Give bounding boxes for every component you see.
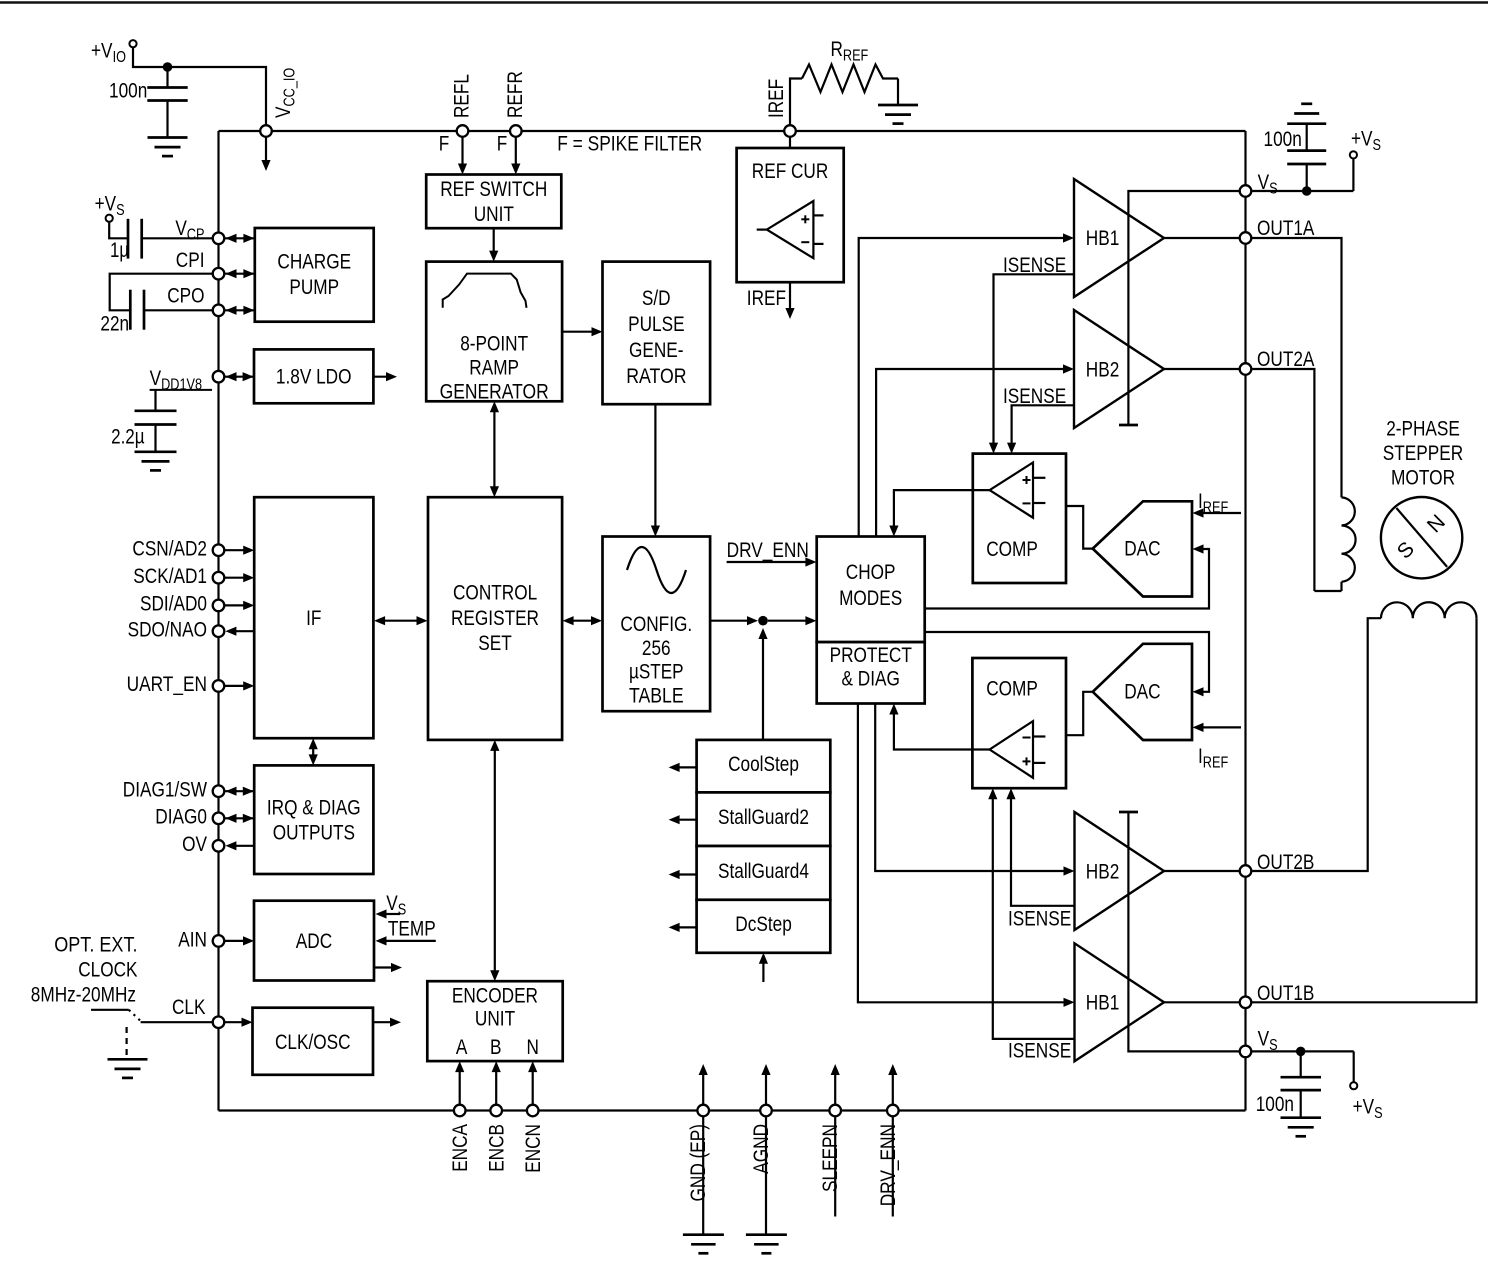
svg-text:AIN: AIN: [178, 928, 207, 951]
svg-text:ISENSE: ISENSE: [1003, 385, 1066, 408]
block CHOP MODES: [817, 537, 925, 643]
svg-text:S: S: [1373, 137, 1382, 154]
pin DIAG1/SW: [213, 785, 225, 797]
pin VS (bottom): [1240, 1046, 1252, 1058]
svg-text:CHOP: CHOP: [846, 561, 896, 584]
block 8-POINT RAMP GENERATOR: [426, 262, 562, 402]
wire IRQ block to OV: [235, 845, 254, 847]
wire COMP upper to DAC upper: [1066, 506, 1093, 549]
capacitor 1u: [109, 222, 128, 239]
wire VS to +VS (top): [1251, 190, 1353, 192]
svg-text:TEMP: TEMP: [388, 918, 436, 941]
svg-text:REF SWITCH: REF SWITCH: [440, 178, 547, 201]
wire REFL to switch unit: [461, 137, 463, 170]
ground (ext clock): [108, 1058, 148, 1061]
svg-text:RATOR: RATOR: [626, 365, 686, 388]
wire HB1 to OUT1A: [1164, 237, 1240, 239]
svg-text:REF: REF: [1203, 500, 1228, 517]
svg-text:SDI/AD0: SDI/AD0: [140, 593, 207, 616]
wire chip left border: [217, 131, 219, 1111]
pin CPO: [213, 305, 225, 317]
svg-text:REF CUR: REF CUR: [752, 160, 829, 183]
pin OV: [213, 840, 225, 852]
wire VDD1V8 to LDO: [224, 376, 254, 378]
svg-text:CPI: CPI: [176, 249, 205, 272]
wire control registers to uStep table: [567, 620, 599, 622]
svg-text:N: N: [527, 1036, 539, 1059]
pin REFR: [510, 125, 522, 137]
pin DRV_ENN: [887, 1105, 899, 1117]
wire VS to +VS (bottom): [1251, 1050, 1353, 1052]
wire chip right border: [1244, 131, 1246, 1111]
svg-text:HB1: HB1: [1086, 992, 1120, 1015]
block CoolStep: [697, 740, 831, 793]
block COMP (lower): [972, 658, 1066, 788]
svg-text:REF: REF: [1203, 755, 1228, 772]
svg-text:DAC: DAC: [1124, 538, 1160, 561]
svg-text:DIAG0: DIAG0: [155, 806, 207, 829]
svg-text:AGND: AGND: [750, 1124, 773, 1174]
svg-text:UNIT: UNIT: [475, 1007, 515, 1030]
svg-text:CLOCK: CLOCK: [78, 959, 137, 982]
svg-text:ISENSE: ISENSE: [1008, 1040, 1071, 1063]
svg-text:2.2µ: 2.2µ: [111, 426, 145, 449]
svg-text:StallGuard4: StallGuard4: [718, 860, 809, 883]
svg-text:A: A: [456, 1036, 468, 1059]
svg-text:V: V: [175, 217, 187, 240]
svg-text:OUTPUTS: OUTPUTS: [273, 822, 355, 845]
wire SDI/AD0 to IF: [224, 604, 249, 606]
wire COMP lower to DAC lower: [1066, 692, 1093, 735]
svg-text:IRQ & DIAG: IRQ & DIAG: [267, 796, 361, 819]
pin ENCB: [490, 1105, 502, 1117]
svg-text:V: V: [150, 367, 162, 390]
wire ENCN to encoder unit: [532, 1066, 534, 1105]
pin SDI/AD0: [213, 600, 225, 612]
transistor HB1 (lower half bridge): [1075, 943, 1165, 1061]
svg-text:1µ: 1µ: [110, 239, 129, 262]
svg-text:2-PHASE: 2-PHASE: [1386, 418, 1460, 441]
ground (VIO cap): [148, 136, 188, 139]
wire ISENSE HB1 upper to COMP: [994, 274, 1075, 448]
pin GND (EP): [697, 1105, 709, 1117]
wire IREF to DAC lower: [1197, 726, 1241, 728]
wire SLEEPN stub arrow: [834, 1069, 836, 1105]
svg-text:ENCA: ENCA: [449, 1124, 472, 1172]
block CHARGE PUMP: [255, 228, 374, 322]
svg-text:DcStep: DcStep: [735, 913, 792, 936]
svg-text:+V: +V: [1351, 128, 1373, 151]
svg-text:+V: +V: [1353, 1096, 1375, 1119]
block StallGuard2: [697, 792, 831, 846]
wire SCK/AD1 to IF: [224, 577, 249, 579]
wire ramp generator to S/D: [562, 331, 597, 333]
transistor HB2 (upper half bridge): [1074, 310, 1164, 428]
wire CSN/AD2 to IF: [224, 549, 249, 551]
block 1.8V LDO: [254, 349, 373, 403]
terminal +VS (charge pump): [106, 215, 113, 222]
svg-text:SLEEPN: SLEEPN: [819, 1124, 842, 1192]
svg-text:OPT. EXT.: OPT. EXT.: [54, 934, 137, 957]
pin CLK: [213, 1016, 225, 1028]
wire ENCA to encoder unit: [459, 1066, 461, 1105]
wire AIN to ADC: [224, 940, 249, 942]
wire chopper to DAC upper: [925, 549, 1209, 609]
svg-text:DRV_ENN: DRV_ENN: [727, 539, 809, 562]
svg-text:SCK/AD1: SCK/AD1: [133, 565, 207, 588]
pin OUT2B: [1240, 865, 1252, 877]
ground (VS bottom): [1281, 1116, 1322, 1119]
svg-text:PUMP: PUMP: [289, 276, 339, 299]
svg-text:S: S: [398, 902, 407, 919]
pin OUT1B: [1240, 997, 1252, 1009]
motor rotor symbol: [1381, 497, 1462, 578]
pin CPI: [213, 268, 225, 280]
wire TEMP input to ADC: [385, 940, 436, 942]
svg-text:OUT2A: OUT2A: [1257, 348, 1314, 371]
svg-text:IO: IO: [113, 49, 126, 66]
svg-text:GND (EP): GND (EP): [687, 1124, 710, 1202]
wire ISENSE HB1 lower to COMP: [993, 793, 1075, 1039]
svg-text:F = SPIKE FILTER: F = SPIKE FILTER: [557, 133, 702, 156]
svg-text:CC_IO: CC_IO: [282, 68, 299, 107]
capacitor 100n (VS top): [1306, 164, 1308, 191]
wire IREF to DAC upper: [1197, 512, 1241, 514]
wire S/D to uStep table: [654, 404, 656, 531]
wire ISENSE HB2 lower to COMP: [1011, 793, 1075, 906]
wire StallGuard2 output: [679, 819, 697, 821]
block CLK/OSC: [253, 1008, 374, 1075]
svg-text:HB1: HB1: [1086, 227, 1120, 250]
terminal +VIO: [129, 40, 136, 47]
wire StallGuard4 output: [679, 873, 697, 875]
svg-text:OUT1A: OUT1A: [1257, 217, 1314, 240]
wire CLK/OSC output: [373, 1021, 396, 1023]
block IF: [254, 497, 373, 738]
block CONFIG 256 uSTEP TABLE: [603, 537, 711, 712]
wire AGND stub arrow: [765, 1069, 767, 1105]
svg-text:REGISTER: REGISTER: [451, 607, 539, 630]
capacitor 100n (VS bottom): [1300, 1051, 1302, 1077]
icon sine wave: [627, 547, 686, 593]
svg-text:B: B: [490, 1036, 502, 1059]
wire COMP lower to protect: [894, 709, 990, 750]
svg-text:8-POINT: 8-POINT: [460, 333, 528, 356]
transistor HB2 (lower half bridge): [1075, 812, 1165, 930]
ground (AGND): [765, 1116, 767, 1234]
svg-text:CPO: CPO: [167, 285, 204, 308]
capacitor 100n (VIO): [166, 67, 168, 88]
pin SCK/AD1: [213, 572, 225, 584]
svg-text:+V: +V: [91, 40, 113, 63]
wire VS bottom distribution: [1128, 812, 1239, 1051]
svg-text:CHARGE: CHARGE: [277, 251, 351, 274]
svg-text:S: S: [116, 202, 125, 219]
resistor RREF: [790, 79, 802, 126]
svg-text:CONTROL: CONTROL: [453, 581, 537, 604]
svg-text:StallGuard2: StallGuard2: [718, 806, 809, 829]
svg-text:V: V: [272, 107, 295, 119]
pin DIAG0: [213, 813, 225, 825]
block ADC: [254, 901, 374, 981]
DAC (lower): [1093, 644, 1192, 740]
svg-text:GENERATOR: GENERATOR: [440, 380, 549, 403]
pin REFL: [457, 125, 469, 137]
wire CPO to charge pump: [224, 309, 255, 311]
capacitor 2.2u: [154, 390, 156, 411]
pin ENCN: [527, 1105, 539, 1117]
svg-text:100n: 100n: [1256, 1093, 1294, 1116]
svg-text:DRV_ENN: DRV_ENN: [877, 1124, 900, 1206]
block S/D PULSE GENERATOR: [603, 262, 711, 405]
wire control registers to encoder unit: [494, 745, 496, 976]
pin OUT2A: [1240, 363, 1252, 375]
wire IF to control registers: [378, 620, 424, 622]
op-amp U-COMP-lower: [990, 721, 1033, 778]
svg-text:PROTECT: PROTECT: [830, 644, 912, 667]
ground (RREF): [878, 104, 918, 107]
wire ramp generator to control registers: [493, 406, 495, 492]
wire GND stub arrow: [702, 1069, 704, 1105]
wire COMP upper to chopper: [894, 490, 990, 531]
svg-text:DIAG1/SW: DIAG1/SW: [123, 779, 207, 802]
pin VDD1V8: [213, 371, 225, 383]
pin OUT1A: [1240, 232, 1252, 244]
wire VCC_IO internal arrow: [265, 137, 267, 166]
wire ENCB to encoder unit: [495, 1066, 497, 1105]
svg-text:CSN/AD2: CSN/AD2: [132, 538, 207, 561]
wire CPI to charge pump: [224, 273, 255, 275]
pin VCC_IO: [260, 125, 272, 137]
svg-text:22n: 22n: [100, 313, 129, 336]
block REF CUR: [737, 148, 844, 282]
wire +VIO to VCC_IO: [133, 47, 266, 125]
svg-text:V: V: [386, 892, 398, 915]
svg-text:& DIAG: & DIAG: [842, 667, 900, 690]
wire DIAG1/SW to IRQ block: [224, 790, 254, 792]
coil phase B: [1251, 618, 1381, 871]
wire IF to IRQ block: [312, 743, 314, 760]
capacitor 22n: [110, 274, 213, 311]
wire VCP to charge pump: [224, 237, 255, 239]
svg-text:8MHz-20MHz: 8MHz-20MHz: [31, 984, 136, 1007]
icon ramp profile: [443, 274, 527, 308]
svg-text:ISENSE: ISENSE: [1003, 254, 1066, 277]
wire protect to HB2 (lower): [875, 704, 1069, 872]
block PROTECT & DIAG: [817, 642, 925, 703]
wire SLEEPN lead: [834, 1116, 836, 1216]
svg-text:REFR: REFR: [504, 71, 527, 118]
pin AGND: [760, 1105, 772, 1117]
svg-text:OV: OV: [182, 833, 207, 856]
op-amp U-REFCUR: [767, 201, 814, 258]
wire REFR to switch unit: [515, 137, 517, 170]
wire Vs input to ADC: [385, 913, 400, 915]
block DcStep: [697, 900, 831, 953]
svg-text:IREF: IREF: [747, 287, 786, 310]
svg-text:100n: 100n: [1264, 128, 1302, 151]
svg-text:1.8V LDO: 1.8V LDO: [276, 366, 352, 389]
block ENCODER UNIT: [427, 981, 562, 1061]
ground (VS top, inverted): [1287, 122, 1326, 125]
wire CoolStep output: [679, 766, 697, 768]
block CONTROL REGISTER SET: [428, 497, 562, 740]
block StallGuard4: [697, 846, 831, 900]
terminal +VS (bottom right): [1350, 1082, 1357, 1089]
svg-text:UNIT: UNIT: [474, 203, 514, 226]
svg-text:REFL: REFL: [450, 74, 473, 118]
node uStep output junction: [758, 616, 768, 626]
pin CSN/AD2: [213, 544, 225, 556]
svg-text:CONFIG.: CONFIG.: [620, 613, 692, 636]
wire DRV_ENN stub arrow: [892, 1069, 894, 1105]
svg-text:ISENSE: ISENSE: [1008, 908, 1071, 931]
svg-text:R: R: [831, 38, 843, 61]
svg-text:S/D: S/D: [642, 287, 671, 310]
svg-text:+V: +V: [95, 193, 117, 216]
wire chopper to DAC lower: [925, 632, 1209, 692]
block REF SWITCH UNIT: [426, 175, 561, 229]
wire protect to HB1 (lower): [858, 704, 1069, 1003]
pin SDO/NAO: [213, 625, 225, 637]
svg-text:ENCB: ENCB: [485, 1124, 508, 1172]
svg-text:S: S: [1374, 1105, 1383, 1122]
svg-text:HB2: HB2: [1086, 861, 1120, 884]
wire CLK to CLK/OSC: [224, 1021, 248, 1023]
svg-text:RAMP: RAMP: [469, 357, 519, 380]
svg-text:100n: 100n: [109, 80, 147, 103]
svg-text:µSTEP: µSTEP: [629, 661, 684, 684]
svg-text:DD1V8: DD1V8: [161, 377, 202, 394]
svg-text:MOTOR: MOTOR: [1391, 466, 1455, 489]
svg-text:CP: CP: [187, 226, 205, 243]
wire HB2 to OUT2A: [1164, 368, 1240, 370]
pin VCP: [213, 233, 225, 245]
svg-text:UART_EN: UART_EN: [127, 673, 207, 696]
pin IREF: [784, 125, 796, 137]
svg-text:CoolStep: CoolStep: [728, 753, 799, 776]
wire DRV_ENN to chopper: [727, 561, 812, 563]
node VS cap junction (top): [1302, 186, 1312, 196]
pin AIN: [213, 935, 225, 947]
svg-text:F: F: [497, 133, 508, 156]
wire IF to SDO/NAO: [235, 630, 254, 632]
svg-text:STEPPER: STEPPER: [1383, 442, 1463, 465]
pin VS (top): [1240, 185, 1252, 197]
svg-text:V: V: [1258, 1028, 1270, 1051]
transistor HB1 (upper half bridge): [1074, 179, 1164, 297]
wire DcStep bottom input: [762, 958, 764, 982]
node VS cap junction (bottom): [1296, 1047, 1306, 1057]
svg-text:HB2: HB2: [1086, 358, 1120, 381]
svg-text:F: F: [439, 133, 450, 156]
op-amp U-COMP-upper: [990, 463, 1033, 518]
svg-text:GENE-: GENE-: [629, 339, 684, 362]
svg-text:IREF: IREF: [765, 79, 788, 118]
wire chopper to HB2 (upper): [876, 369, 1068, 537]
wire ISENSE HB2 upper to COMP: [1012, 405, 1074, 448]
wire external clock switch: [91, 1009, 129, 1011]
svg-text:TABLE: TABLE: [629, 684, 684, 707]
block IRQ & DIAG OUTPUTS: [254, 765, 373, 874]
wire coolstep to junction: [762, 639, 764, 740]
wire chopper to HB1 (upper): [859, 238, 1069, 537]
svg-text:SET: SET: [478, 632, 512, 655]
svg-text:CLK: CLK: [172, 996, 206, 1019]
block COMP (upper): [973, 454, 1066, 583]
wire DIAG0 to IRQ block: [224, 817, 254, 819]
svg-text:MODES: MODES: [839, 587, 902, 610]
svg-text:256: 256: [642, 637, 671, 660]
ground (2.2u cap): [135, 450, 177, 453]
wire UART_EN to IF: [224, 685, 249, 687]
node +VIO junction: [163, 62, 173, 72]
wire LDO output: [373, 376, 392, 378]
wire switch unit to ramp generator: [493, 228, 495, 256]
wire chip bottom bus: [219, 1109, 1246, 1111]
svg-text:COMP: COMP: [986, 538, 1038, 561]
svg-text:ENCODER: ENCODER: [452, 985, 538, 1008]
svg-text:ENCN: ENCN: [522, 1124, 545, 1173]
wire HB2 to OUT2B: [1164, 870, 1240, 872]
wire IREF to REF CUR: [789, 137, 791, 148]
svg-text:ADC: ADC: [296, 930, 332, 953]
page top rule: [0, 1, 1488, 3]
svg-text:IF: IF: [306, 607, 321, 630]
wire HB1 to OUT1B: [1164, 1001, 1240, 1003]
svg-text:DAC: DAC: [1124, 681, 1160, 704]
svg-text:CLK/OSC: CLK/OSC: [275, 1031, 351, 1054]
wire ADC output: [374, 966, 397, 968]
wire IREF output: [789, 282, 791, 313]
wire uStep table to chopper: [710, 620, 753, 622]
pin UART_EN: [213, 680, 225, 692]
wire DRV_ENN lead: [892, 1116, 894, 1216]
svg-text:REF: REF: [843, 48, 868, 65]
svg-text:COMP: COMP: [986, 678, 1038, 701]
svg-text:SDO/NAO: SDO/NAO: [128, 619, 207, 642]
svg-text:S: S: [1269, 181, 1278, 198]
wire VS top distribution: [1128, 191, 1239, 425]
DAC (upper): [1093, 501, 1192, 596]
terminal +VS (top right): [1350, 151, 1357, 158]
ground (GND EP): [702, 1116, 704, 1234]
wire DcStep output: [679, 926, 697, 928]
wire chip top bus VCC_IO rail: [219, 130, 1246, 132]
coil phase A: [1251, 238, 1341, 497]
pin ENCA: [454, 1105, 466, 1117]
pin SLEEPN: [829, 1105, 841, 1117]
svg-text:PULSE: PULSE: [628, 313, 685, 336]
